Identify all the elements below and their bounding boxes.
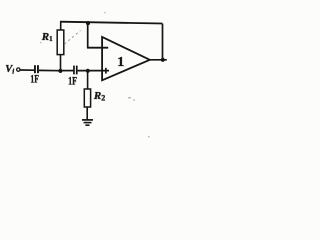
svg-text:1F: 1F <box>30 72 39 86</box>
capacitor C2 (1F) plates <box>73 66 78 75</box>
node D output junction dot <box>161 58 165 62</box>
input terminal circle <box>17 68 20 71</box>
wire inverting input (minus sign) <box>87 47 108 49</box>
resistor R2 body <box>84 89 90 107</box>
svg-text:R2: R2 <box>93 90 105 102</box>
scan scratch artifact near R1 <box>65 31 81 45</box>
node Vi input label <box>5 64 14 76</box>
wire top feedback rail <box>60 22 162 24</box>
svg-text:Vi: Vi <box>5 64 14 76</box>
plus sign vertical stroke <box>105 68 107 74</box>
svg-text:R1: R1 <box>41 31 53 43</box>
wire node C to noninverting input (plus horizontal) <box>78 70 109 72</box>
op-amp U1 body <box>102 37 150 80</box>
ground symbol <box>82 120 93 125</box>
capacitor C1 (1F) plates <box>34 65 39 73</box>
scan speckles <box>40 12 150 137</box>
wire op-amp output <box>150 59 167 61</box>
node B junction dot (feedback to inverting input) <box>86 21 90 25</box>
wire C1 to node A <box>39 69 61 71</box>
resistor R1 lower lead wire <box>60 54 62 71</box>
resistor R1 upper lead wire <box>60 22 62 31</box>
resistor R2 lower lead wire <box>86 107 88 119</box>
svg-text:1F: 1F <box>68 74 77 88</box>
wire node B down to inverting input <box>87 23 89 48</box>
node C junction dot (C2/R2/noninverting input) <box>86 69 90 73</box>
node A junction dot (C1/R1/C2) <box>58 69 62 73</box>
resistor R2 upper lead wire <box>87 71 89 89</box>
wire feedback right vertical <box>162 24 164 60</box>
svg-text:1: 1 <box>117 55 124 70</box>
wire input terminal to C1 <box>20 69 34 71</box>
wire node A to C2 <box>60 70 73 72</box>
resistor R1 body <box>57 30 64 55</box>
